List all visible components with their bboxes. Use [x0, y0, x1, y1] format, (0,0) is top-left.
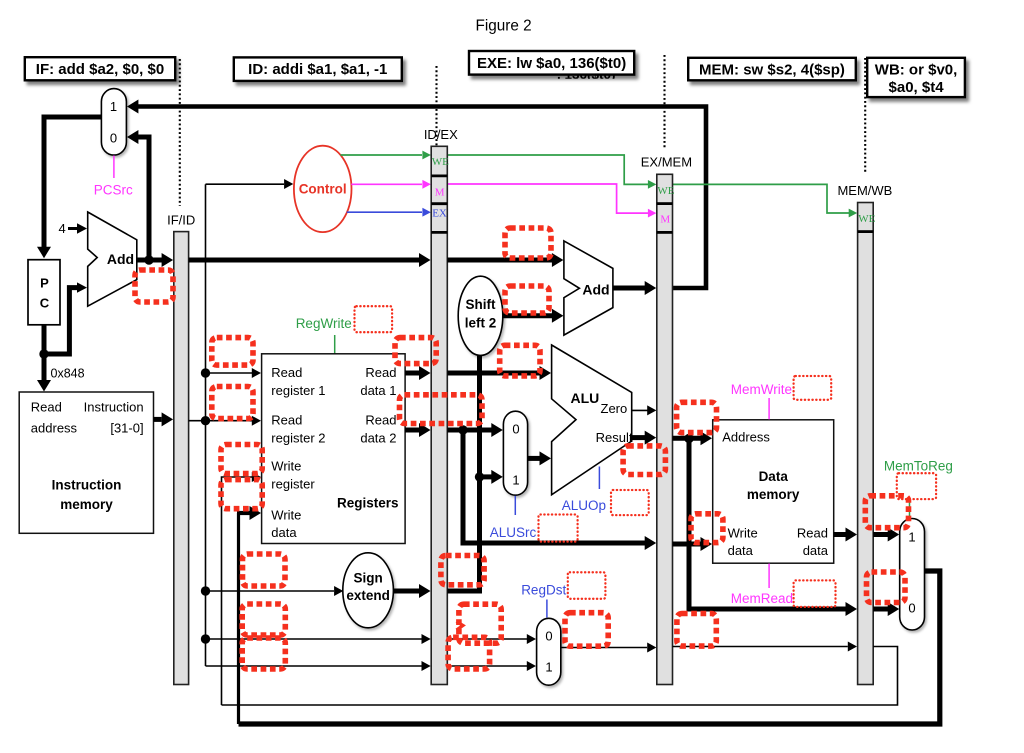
svg-text:0x848: 0x848 [51, 367, 85, 381]
label MemWrite [731, 382, 792, 397]
svg-text:data: data [271, 525, 297, 540]
svg-text:data: data [728, 543, 754, 558]
svg-text:data 1: data 1 [360, 383, 396, 398]
svg-text:RegWrite: RegWrite [296, 316, 352, 331]
svg-text:Instruction: Instruction [84, 400, 144, 415]
pipeline register ID/EX cell WE [432, 156, 449, 168]
svg-text:extend: extend [346, 588, 390, 603]
svg-text:ALUOp: ALUOp [562, 498, 606, 513]
pipeline register label MEM/WB [837, 183, 892, 198]
alu output Result [596, 430, 657, 445]
annotation dashed box shift left 2 output [505, 286, 549, 313]
annotation dashed box EX/MEM write data [691, 514, 723, 543]
svg-text:Address: Address [722, 430, 770, 445]
pipeline register label IF/ID [167, 213, 195, 228]
signal stem MemWrite [768, 398, 770, 419]
mux RegDst label 1 [545, 660, 552, 675]
svg-text:4: 4 [59, 221, 66, 236]
svg-text:Write: Write [271, 459, 301, 474]
wire instruction IF/ID output [189, 420, 206, 422]
svg-text:EX/MEM: EX/MEM [641, 155, 692, 170]
alu output Zero [601, 401, 657, 416]
svg-text:Read: Read [365, 365, 396, 380]
svg-text:Zero: Zero [601, 401, 628, 416]
svg-text:M: M [660, 214, 670, 226]
svg-text:Sign: Sign [353, 571, 382, 586]
wire data memory read data to MEM/WB [834, 528, 857, 542]
wire read data 1 to ID/EX [405, 366, 430, 380]
pipeline register EX/MEM cell M [660, 214, 670, 226]
stage label box EXE [469, 51, 634, 75]
annotation stray red chevron [457, 622, 464, 631]
wire M magenta Control to ID/EX [351, 180, 431, 189]
wire shift left 2 output to branch adder [503, 309, 564, 323]
mux PCSrc [101, 89, 126, 156]
annotation dashed box ALU input 1 [500, 345, 540, 376]
value box ALUOp [611, 490, 649, 515]
wire PC+4 IF/ID to ID/EX [189, 253, 431, 267]
annotation dashed box ID/EX read data 2 [400, 395, 483, 424]
annotation dashed box EX/MEM write register [677, 614, 716, 647]
stage separator dotted line ID/EX [435, 66, 437, 146]
svg-text:1: 1 [908, 530, 915, 545]
wire PC+4 ID/EX to branch adder [447, 253, 563, 267]
mux PCSrc label 1 [110, 99, 117, 114]
svg-text:1: 1 [545, 660, 552, 675]
svg-text:[31-0]: [31-0] [110, 421, 143, 436]
value box MemWrite [794, 376, 832, 400]
wire read data 2 to ID/EX [405, 423, 430, 437]
value box MemRead [794, 580, 836, 607]
wire to sign extend [206, 586, 344, 596]
svg-text:$a0, $t4: $a0, $t4 [889, 79, 945, 96]
wire EX/MEM to data memory write data [673, 537, 713, 551]
svg-text:left 2: left 2 [465, 316, 497, 331]
svg-text:Read: Read [271, 365, 302, 380]
wire PC to junction below [42, 325, 47, 354]
registers title [337, 496, 399, 511]
svg-text:Write: Write [271, 508, 301, 523]
svg-text:memory: memory [747, 487, 800, 502]
annotation dashed box read register 2 [212, 387, 253, 419]
svg-text:Read: Read [31, 400, 62, 415]
label MemRead [731, 591, 793, 606]
shift left 2 oval [458, 276, 503, 355]
wire junction to instruction memory read address [37, 354, 51, 392]
registers port Write register [271, 459, 315, 492]
wire WE green ID/EX to EX/MEM [447, 155, 656, 189]
annotation dashed box ID/EX rt out [459, 604, 501, 643]
svg-text:register 1: register 1 [271, 383, 325, 398]
svg-text:data 2: data 2 [360, 431, 396, 446]
node read data 2 junction [458, 425, 467, 434]
svg-text:register: register [271, 477, 315, 492]
svg-text:MemToReg: MemToReg [884, 458, 953, 473]
pipeline register ID/EX cell EX [432, 208, 447, 220]
title Figure 2 [476, 18, 532, 35]
label MemToReg [884, 458, 953, 473]
annotation dashed box bus rt field [242, 604, 285, 635]
svg-text:RegDst: RegDst [521, 583, 566, 598]
label ALUSrc [490, 525, 537, 540]
pipeline register EX/MEM [657, 174, 673, 684]
registers port Read register 2 [271, 413, 325, 446]
data memory port Address [722, 430, 770, 445]
svg-text:MEM: sw $s2, 4($sp): MEM: sw $s2, 4($sp) [699, 62, 845, 79]
svg-text:Read: Read [271, 413, 302, 428]
node instruction bus junction read register 1 [201, 368, 210, 377]
svg-text:EX: EX [432, 208, 447, 220]
svg-text:WB: or $v0,: WB: or $v0, [875, 62, 958, 79]
stage label box ID [234, 57, 402, 81]
data memory title [747, 469, 800, 502]
clipped text fragment behind EXE box [557, 67, 616, 82]
signal stem MemRead [768, 564, 770, 588]
wire immediate ID/EX up to shift left 2 [447, 356, 479, 592]
label RegDst [521, 583, 566, 598]
annotation dashed box IF/ID PC+4 [135, 270, 173, 302]
svg-text:Data: Data [759, 469, 789, 484]
mux MemToReg [900, 519, 925, 631]
svg-text:0: 0 [110, 131, 117, 146]
annotation dashed box bus sign extend field [243, 554, 286, 586]
svg-text:MEM/WB: MEM/WB [837, 183, 892, 198]
registers port Read data 2 [360, 413, 396, 446]
svg-text:0: 0 [545, 629, 552, 644]
annotation dashed box write data [221, 480, 262, 509]
svg-text:WE: WE [858, 213, 875, 225]
data memory port Write data [728, 526, 758, 559]
node instruction bus junction sign extend [201, 586, 210, 595]
value box MemToReg [897, 473, 936, 499]
wire write register number EX/MEM to MEM/WB [673, 642, 858, 652]
wire immediate to ALUSrc mux 1 [480, 470, 503, 484]
stage separator dotted line IF/ID [179, 59, 181, 206]
wire PCSrc mux output to PC [37, 117, 101, 258]
wire instruction to Control [206, 179, 294, 189]
svg-text:0: 0 [908, 601, 915, 616]
sign extend oval [343, 553, 394, 628]
svg-text:Shift: Shift [466, 297, 496, 312]
wire write register feedback vertical [222, 472, 262, 705]
wire PC+4 to PCSrc mux input 0 [127, 130, 149, 260]
wire instruction memory output to IF/ID [154, 412, 174, 426]
svg-text:register 2: register 2 [271, 431, 325, 446]
svg-text:M: M [435, 186, 445, 198]
svg-text:P: P [40, 276, 49, 291]
pipeline register label EX/MEM [641, 155, 692, 170]
node PC value junction [39, 349, 48, 358]
svg-text:ALUSrc: ALUSrc [490, 525, 537, 540]
alu label [571, 390, 600, 406]
wire WE green EX/MEM to MEM/WB [673, 184, 858, 217]
svg-text:Write: Write [728, 526, 758, 541]
annotation dashed box ALU result [623, 446, 665, 475]
svg-text:MemRead: MemRead [731, 591, 793, 606]
mux PCSrc label 0 [110, 131, 117, 146]
label RegWrite [296, 316, 352, 331]
svg-text:Figure 2: Figure 2 [476, 18, 532, 35]
mux ALUSrc [503, 411, 527, 495]
svg-text:Registers: Registers [337, 496, 399, 511]
wire instruction rd field to ID/EX [206, 661, 431, 671]
wire write data feedback vertical [237, 506, 261, 724]
constant 4 input to Add [59, 221, 88, 236]
bus instruction vertical [205, 184, 207, 666]
annotation dashed box RegDst output [565, 613, 608, 647]
mux MemToReg label 1 [908, 530, 915, 545]
wire ALU result MEM/WB to mux 0 [873, 602, 899, 616]
wire junction to Add lower input [44, 282, 87, 354]
wire write register feedback from MEM/WB [222, 647, 898, 706]
registers port Write data [271, 508, 301, 541]
annotation dashed box write register [221, 445, 262, 474]
signal stem MemToReg [909, 500, 911, 518]
mux RegDst label 0 [545, 629, 552, 644]
control unit oval [294, 146, 352, 232]
wire to read register 1 [206, 368, 262, 378]
instruction memory box [19, 392, 153, 533]
svg-text:Read: Read [797, 526, 828, 541]
node instruction bus junction rt field [201, 634, 210, 643]
label ALUOp [562, 498, 606, 513]
node Add output junction [144, 255, 153, 264]
svg-text:address: address [31, 421, 78, 436]
mux MemToReg label 0 [908, 601, 915, 616]
label PCSrc [94, 183, 133, 198]
data memory port Read data [797, 526, 829, 559]
wire rt ID/EX to RegDst mux 0 [447, 634, 536, 644]
svg-text:WE: WE [432, 156, 449, 168]
pipeline register ID/EX cell M [435, 186, 445, 198]
wire RegDst mux output to EX/MEM [561, 643, 657, 653]
annotation dashed box MEM/WB ALU result [867, 572, 906, 603]
svg-text:Instruction: Instruction [52, 478, 122, 493]
svg-text:ALU: ALU [571, 390, 600, 406]
stage label box IF [25, 57, 175, 80]
wire WE green Control to ID/EX [341, 151, 431, 160]
wire EX blue Control to ID/EX [347, 208, 431, 217]
svg-text:memory: memory [60, 497, 113, 512]
signal stem RegWrite [334, 335, 336, 355]
annotation dashed box read register 1 [212, 338, 253, 366]
signal stem ALUSrc [514, 496, 516, 515]
svg-text:IF: add $a2, $0, $0: IF: add $a2, $0, $0 [36, 61, 164, 78]
svg-text:Read: Read [365, 413, 396, 428]
register PC [28, 260, 60, 325]
signal stem PCSrc [113, 156, 115, 179]
svg-text:MemWrite: MemWrite [731, 382, 792, 397]
svg-text:PCSrc: PCSrc [94, 183, 133, 198]
wire result bypass down to MEM/WB [689, 438, 857, 616]
svg-text:data: data [803, 543, 829, 558]
annotation dashed box EX/MEM address [677, 402, 717, 432]
pipeline register EX/MEM cell WE [657, 185, 674, 197]
wire Add output to IF/ID [137, 253, 173, 267]
mux ALUSrc label 1 [512, 473, 519, 488]
wire branch adder output to EX/MEM [613, 281, 656, 295]
registers box [262, 354, 406, 544]
wire read data 2 down to EX/MEM write data [463, 430, 656, 550]
node instruction bus junction read register 2 [201, 416, 210, 425]
instruction memory title [52, 478, 122, 513]
wire ALUSrc mux output to ALU [528, 451, 551, 465]
label 0x848 [51, 367, 85, 381]
annotation dashed box ID/EX rd out [448, 637, 490, 669]
annotation dashed box branch adder top input [505, 228, 551, 258]
svg-text:WE: WE [657, 185, 674, 197]
wire to read register 2 [206, 416, 262, 426]
registers port Read register 1 [271, 365, 325, 398]
value box RegWrite [355, 306, 393, 332]
wire rd ID/EX to RegDst mux 1 [447, 661, 536, 671]
svg-text:ID/EX: ID/EX [424, 127, 458, 142]
wire branch feedback loop EX/MEM to PCSrc mux input 1 [127, 100, 706, 289]
value box RegDst [568, 572, 606, 599]
adder Add (branch target) [564, 241, 613, 335]
wire M magenta ID/EX to EX/MEM [447, 184, 656, 218]
svg-text:Add: Add [107, 251, 134, 267]
svg-text:Add: Add [582, 282, 609, 298]
node immediate junction to ALUSrc mux 1 [475, 472, 484, 481]
svg-text:ID: addi $a1, $a1, -1: ID: addi $a1, $a1, -1 [248, 61, 387, 78]
data memory box [713, 420, 834, 563]
svg-text:Result: Result [596, 430, 633, 445]
registers port Read data 1 [360, 365, 396, 398]
instruction memory port Instruction [31-0] [84, 400, 144, 436]
svg-text:Control: Control [299, 182, 347, 197]
wire read data 2 ID/EX to ALUSrc mux 0 [447, 423, 503, 437]
pipeline register ID/EX [431, 146, 447, 684]
instruction memory port Read address [31, 400, 78, 436]
adder Add (PC+4) [88, 212, 137, 306]
wire MemToReg mux output feedback to write data [239, 571, 940, 724]
pipeline register MEM/WB [858, 203, 874, 685]
svg-text:C: C [40, 296, 50, 311]
svg-text:1: 1 [110, 99, 117, 114]
wire read data 1 ID/EX to ALU [447, 366, 551, 380]
alu shape [552, 345, 632, 495]
annotation dashed box ID/EX read data 1 in [395, 338, 436, 364]
stage label box WB [867, 58, 965, 97]
svg-text:EXE: lw $a0, 136($t0): EXE: lw $a0, 136($t0) [477, 55, 626, 72]
annotation dashed box ID/EX immediate [441, 556, 484, 585]
pipeline register label ID/EX [424, 127, 458, 142]
stage separator dotted line MEM/WB [864, 58, 866, 172]
svg-text:1: 1 [512, 473, 519, 488]
wire ALU result EX/MEM to data memory address [673, 431, 713, 445]
pipeline register MEM/WB cell WE [858, 213, 875, 225]
node result junction [684, 434, 693, 443]
svg-text:0: 0 [512, 422, 519, 437]
wire instruction rt field to ID/EX [206, 634, 431, 644]
signal stem RegDst [546, 600, 548, 618]
signal stem ALUOp [598, 467, 600, 490]
stage label box MEM [688, 58, 856, 81]
value box ALUSrc [539, 515, 578, 542]
mux ALUSrc label 0 [512, 422, 519, 437]
wire sign extend output to ID/EX [393, 584, 430, 598]
annotation dashed box bus rd field [242, 638, 285, 669]
pipeline register IF/ID [174, 232, 189, 685]
mux RegDst [537, 618, 561, 685]
stage separator dotted line EX/MEM [663, 55, 665, 148]
annotation dashed box MEM/WB read data [865, 496, 908, 528]
svg-text:IF/ID: IF/ID [167, 213, 195, 228]
wire read data MEM/WB to mux 1 [873, 528, 899, 542]
